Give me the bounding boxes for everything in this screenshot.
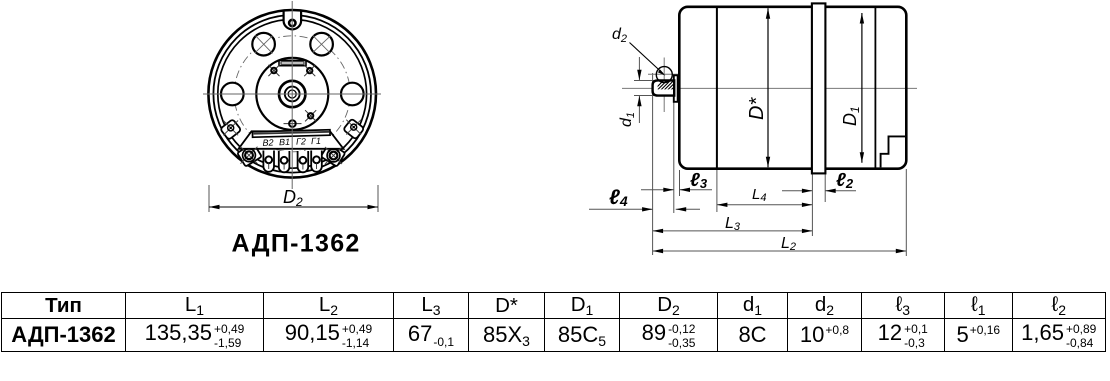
terminal box trapezoid	[239, 131, 344, 149]
extension line hub left face	[673, 102, 675, 213]
cap screw lower-right	[305, 110, 316, 121]
D1 dimension	[861, 13, 863, 163]
extension line band left	[811, 174, 813, 237]
svg-text:ℓ2: ℓ2	[836, 170, 854, 191]
horizontal centerline	[203, 93, 381, 95]
big screw left	[241, 147, 258, 164]
left screw tab	[237, 143, 262, 167]
dimension table	[1, 292, 1106, 352]
l2 dimension	[782, 190, 812, 192]
svg-text:Г2: Г2	[296, 136, 306, 146]
hole right	[341, 83, 364, 106]
svg-text:ℓ4: ℓ4	[609, 186, 628, 209]
shaft	[653, 80, 675, 95]
shaft horizontal centerline d2	[648, 73, 680, 75]
extension line body left face	[679, 170, 681, 196]
terminal labels	[262, 136, 321, 148]
d2 circle	[656, 67, 672, 83]
right screw tab	[321, 143, 346, 167]
pin slot 3	[298, 151, 309, 172]
second circle	[213, 15, 371, 173]
l3 dimension	[641, 189, 674, 191]
D2 extension line right	[377, 185, 379, 212]
svg-text:Г1: Г1	[311, 136, 321, 146]
top lug	[284, 11, 302, 30]
vertical centerline	[291, 1, 293, 189]
shaft vertical centerline	[663, 58, 665, 113]
bolt circle (dash-dot)	[234, 36, 350, 152]
svg-text:L3: L3	[725, 215, 741, 233]
l4 dimension	[589, 208, 653, 210]
svg-text:В2: В2	[262, 137, 273, 147]
outer circle	[208, 10, 376, 178]
mounting band	[812, 3, 826, 173]
cap screw upper-left	[268, 65, 279, 76]
d1 top extension	[634, 80, 657, 82]
hole top-right cross ticks	[313, 36, 331, 54]
svg-text:АДП-1362: АДП-1362	[232, 230, 361, 258]
left ear screw	[223, 121, 238, 136]
d1 bottom extension	[634, 95, 657, 97]
cap slot rectangle	[279, 60, 306, 65]
svg-text:D2: D2	[283, 187, 303, 209]
cap screw bottom-center	[284, 120, 302, 127]
L2 dimension	[653, 250, 907, 252]
d2 leader line	[630, 43, 664, 74]
right ear screw	[346, 120, 361, 135]
svg-text:L4: L4	[752, 186, 766, 204]
rear notch step	[881, 136, 906, 167]
L4 dimension	[717, 204, 813, 206]
svg-text:ℓ3: ℓ3	[690, 170, 708, 191]
extension line cap joint	[716, 169, 718, 212]
cap screw upper-right	[304, 65, 315, 76]
svg-text:L2: L2	[781, 235, 796, 253]
extension line body right	[905, 169, 907, 256]
pin slot 2	[279, 151, 290, 172]
pin screws	[265, 156, 320, 163]
extension line band right	[824, 174, 826, 203]
big screw right	[325, 147, 342, 164]
extension line shaft tip	[652, 73, 654, 255]
left ear	[220, 119, 241, 140]
D2 extension line left	[208, 185, 210, 212]
right ear	[343, 119, 364, 140]
third circle	[218, 19, 367, 168]
motor body	[679, 7, 906, 169]
svg-text:d2: d2	[612, 26, 627, 45]
hole top-left cross ticks	[255, 35, 273, 53]
shaft rings	[279, 81, 305, 107]
D2 dimension line	[209, 206, 378, 208]
end cap circle	[256, 58, 328, 130]
svg-text:D1: D1	[840, 106, 862, 126]
hole left	[221, 83, 244, 106]
horizontal centerline	[622, 87, 917, 89]
shaft section hatch	[652, 78, 686, 92]
hole top-right	[310, 33, 333, 56]
pin slot 1	[263, 151, 274, 172]
svg-text:d1: d1	[618, 112, 637, 127]
front cap joint line	[716, 8, 718, 168]
rear cap joint line	[874, 8, 876, 168]
hub plate	[674, 75, 678, 102]
terminal cover bar	[252, 130, 330, 137]
L3 dimension	[653, 230, 813, 232]
svg-text:D*: D*	[746, 97, 768, 120]
pin slot 4	[311, 151, 322, 172]
d1 dimension arrows	[638, 57, 640, 80]
D* dimension	[767, 8, 769, 167]
top lug screw	[289, 20, 295, 26]
svg-text:В1: В1	[279, 137, 290, 147]
hole top-left	[252, 33, 275, 56]
